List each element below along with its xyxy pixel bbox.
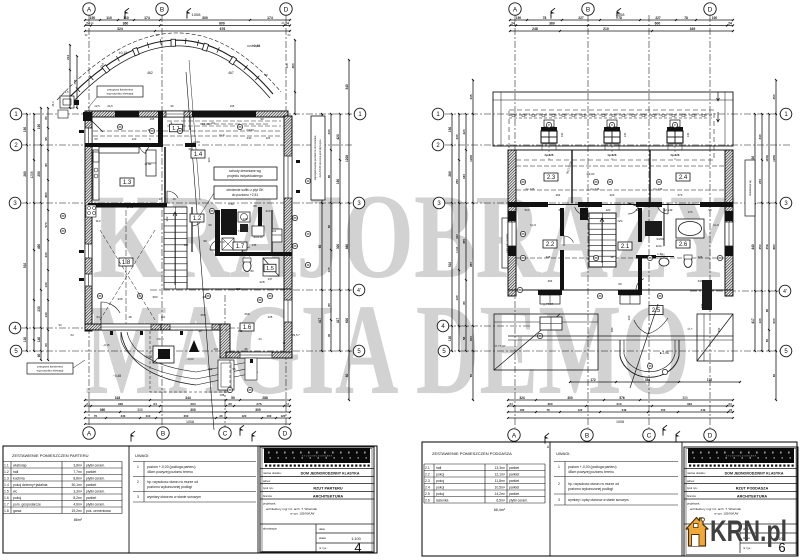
svg-text:1208: 1208: [772, 155, 776, 162]
svg-text:300: 300: [137, 408, 143, 412]
svg-text:354: 354: [645, 378, 651, 382]
svg-text:300: 300: [255, 408, 261, 412]
svg-text:120: 120: [132, 137, 137, 141]
svg-text:96: 96: [232, 367, 236, 371]
svg-text:24: 24: [728, 402, 732, 406]
svg-text:1.2: 1.2: [4, 470, 9, 474]
svg-text:30: 30: [228, 402, 232, 406]
svg-text:188: 188: [220, 393, 225, 397]
svg-text:198: 198: [285, 63, 289, 68]
svg-text:2.1: 2.1: [621, 244, 630, 250]
svg-text:3,8m²: 3,8m²: [73, 464, 83, 468]
svg-text:249: 249: [701, 408, 706, 412]
svg-text:poziomu wykonczonej podlogi: poziomu wykonczonej podlogi: [147, 485, 192, 489]
svg-text:300: 300: [202, 16, 208, 20]
svg-text:417: 417: [318, 318, 322, 324]
svg-text:1.1: 1.1: [4, 464, 9, 468]
svg-text:600: 600: [469, 336, 473, 341]
svg-text:78: 78: [543, 16, 547, 20]
svg-text:130: 130: [44, 282, 48, 287]
svg-text:38: 38: [610, 255, 614, 259]
svg-text:tytul rys.:: tytul rys.:: [263, 486, 274, 490]
svg-text:462: 462: [147, 71, 153, 75]
svg-text:−0,03: −0,03: [186, 357, 194, 361]
svg-text:140: 140: [686, 132, 690, 137]
svg-text:24,5: 24,5: [51, 101, 55, 107]
svg-text:90: 90: [158, 197, 162, 201]
svg-text:174: 174: [267, 16, 273, 20]
svg-text:450: 450: [717, 327, 721, 332]
svg-text:300: 300: [336, 244, 340, 250]
svg-text:pokoj: pokoj: [436, 486, 444, 490]
svg-text:248: 248: [532, 27, 538, 31]
svg-text:80: 80: [44, 163, 48, 167]
svg-text:130: 130: [327, 267, 331, 272]
svg-text:710: 710: [219, 240, 224, 244]
svg-text:280: 280: [23, 171, 27, 177]
svg-text:wg rysunku elewacji: wg rysunku elewacji: [37, 369, 64, 373]
svg-text:115: 115: [266, 136, 271, 140]
svg-text:330: 330: [700, 303, 704, 308]
svg-text:140: 140: [37, 337, 41, 343]
svg-text:140: 140: [560, 132, 564, 137]
svg-text:KRN.pl: KRN.pl: [710, 515, 787, 548]
svg-text:165: 165: [230, 104, 235, 108]
svg-text:95: 95: [44, 137, 48, 141]
svg-text:860: 860: [44, 192, 48, 197]
svg-text:88: 88: [61, 229, 65, 233]
svg-text:78: 78: [546, 408, 550, 412]
svg-text:1.7: 1.7: [236, 244, 245, 250]
svg-text:165: 165: [150, 117, 155, 121]
svg-text:600: 600: [772, 318, 776, 323]
svg-text:150: 150: [516, 16, 522, 20]
svg-text:90: 90: [170, 104, 174, 108]
svg-text:152: 152: [235, 287, 240, 291]
svg-text:80: 80: [765, 309, 769, 313]
svg-text:11,8m²: 11,8m²: [495, 479, 506, 483]
svg-text:230: 230: [44, 252, 48, 257]
svg-text:60: 60: [469, 374, 473, 378]
svg-text:tytul rys.:: tytul rys.:: [687, 486, 698, 490]
svg-text:∅160: ∅160: [156, 337, 164, 341]
svg-text:1.8: 1.8: [4, 509, 9, 513]
svg-text:115: 115: [272, 229, 277, 233]
svg-text:1.6: 1.6: [4, 496, 9, 500]
svg-text:19,2m²: 19,2m²: [71, 509, 82, 513]
svg-text:D: D: [283, 430, 288, 437]
svg-text:↑+3,00: ↑+3,00: [586, 172, 595, 176]
svg-text:80: 80: [250, 269, 254, 273]
svg-text:parkiet: parkiet: [509, 466, 519, 470]
svg-text:88: 88: [518, 288, 522, 292]
svg-text:318: 318: [115, 396, 121, 400]
svg-text:C: C: [223, 430, 228, 437]
svg-text:29,5↗: 29,5↗: [292, 333, 300, 337]
svg-text:40: 40: [327, 334, 331, 338]
svg-text:plytki ceram.: plytki ceram.: [509, 499, 528, 503]
svg-text:24: 24: [285, 402, 289, 406]
svg-text:150: 150: [90, 16, 96, 20]
svg-text:600: 600: [345, 318, 349, 324]
svg-text:∅↗: ∅↗: [688, 327, 694, 331]
svg-text:1208: 1208: [455, 246, 459, 253]
svg-text:88: 88: [657, 180, 661, 184]
svg-text:projektant:: projektant:: [687, 502, 700, 506]
svg-text:hp.126: hp.126: [608, 153, 617, 157]
svg-text:1.4: 1.4: [4, 483, 9, 487]
svg-text:1158: 1158: [765, 155, 769, 162]
svg-text:1: 1: [558, 465, 560, 469]
svg-text:2.3: 2.3: [425, 479, 430, 483]
svg-text:200: 200: [758, 179, 762, 184]
svg-text:78: 78: [684, 16, 688, 20]
svg-text:∅160: ∅160: [246, 128, 254, 132]
svg-text:pom. gospodarcze: pom. gospodarcze: [13, 503, 41, 507]
svg-text:1: 1: [137, 465, 139, 469]
svg-text:1.5: 1.5: [4, 490, 9, 494]
svg-text:projektant:: projektant:: [263, 502, 276, 506]
svg-text:150: 150: [23, 127, 27, 133]
svg-text:420: 420: [627, 315, 631, 320]
svg-text:△↗7,07: △↗7,07: [543, 302, 554, 306]
svg-text:lazienka: lazienka: [436, 499, 449, 503]
svg-text:64: 64: [96, 315, 100, 319]
svg-text:1.2: 1.2: [193, 216, 202, 222]
svg-text:88: 88: [150, 129, 154, 133]
svg-text:349: 349: [690, 27, 696, 31]
svg-text:1.6: 1.6: [243, 325, 252, 331]
svg-text:wymiary i opisy otworow w sta: wymiary i opisy otworow w stanie surowym: [568, 498, 629, 502]
svg-text:570: 570: [44, 222, 48, 227]
svg-text:417: 417: [336, 318, 340, 324]
svg-text:324: 324: [117, 27, 123, 31]
svg-text:130: 130: [455, 295, 459, 300]
svg-text:↑10,00: ↑10,00: [200, 122, 209, 126]
svg-text:88: 88: [210, 209, 214, 213]
svg-text:440: 440: [758, 134, 762, 139]
svg-text:336: 336: [118, 402, 123, 406]
svg-text:172: 172: [707, 378, 713, 382]
svg-text:276: 276: [256, 402, 261, 406]
svg-text:880: 880: [469, 262, 473, 267]
svg-text:88: 88: [258, 298, 262, 302]
svg-text:80: 80: [327, 175, 331, 179]
svg-text:2.2: 2.2: [425, 473, 430, 477]
svg-text:140: 140: [623, 132, 627, 137]
svg-text:architektury mgr inz. arch. T.: architektury mgr inz. arch. T. Wrazniak: [266, 507, 317, 511]
svg-text:1208: 1208: [30, 171, 34, 178]
svg-text:wymiary otworow w stanie suro: wymiary otworow w stanie surowym: [147, 495, 201, 499]
svg-text:440: 440: [751, 244, 755, 250]
svg-text:490: 490: [37, 244, 41, 250]
svg-text:nazwa obiektu:: nazwa obiektu:: [687, 471, 706, 475]
svg-text:04: 04: [211, 121, 215, 125]
svg-text:7,7m²: 7,7m²: [73, 470, 83, 474]
svg-text:88: 88: [718, 256, 722, 260]
svg-text:88: 88: [206, 294, 210, 298]
svg-text:130: 130: [23, 337, 27, 343]
svg-text:poziom +-0,00 (podloga parteru: poziom +-0,00 (podloga parteru): [147, 465, 196, 469]
svg-text:garaz: garaz: [13, 509, 22, 513]
svg-text:hp.126: hp.126: [671, 153, 680, 157]
svg-text:180: 180: [520, 408, 525, 412]
svg-text:90: 90: [203, 239, 207, 243]
svg-text:576: 576: [619, 396, 625, 400]
svg-text:140: 140: [44, 312, 48, 317]
svg-text:2.4: 2.4: [425, 486, 430, 490]
svg-text:34: 34: [153, 402, 157, 406]
svg-text:ARCHITEKTURA: ARCHITEKTURA: [313, 495, 343, 499]
svg-text:88: 88: [98, 294, 102, 298]
svg-text:467: 467: [228, 71, 234, 75]
svg-text:1008: 1008: [616, 420, 624, 424]
svg-text:230: 230: [37, 306, 41, 312]
svg-text:600: 600: [219, 21, 225, 25]
svg-text:64: 64: [70, 333, 74, 337]
svg-text:DOM JEDNORODZINNY KLASYKA: DOM JEDNORODZINNY KLASYKA: [301, 472, 360, 476]
svg-text:24: 24: [511, 21, 515, 25]
svg-text:280: 280: [448, 171, 452, 177]
svg-text:288: 288: [262, 396, 268, 400]
svg-text:710: 710: [238, 229, 243, 233]
svg-text:70: 70: [94, 414, 98, 418]
svg-text:96: 96: [244, 347, 248, 351]
svg-text:360: 360: [123, 21, 129, 25]
svg-text:14,2m²: 14,2m²: [494, 492, 505, 496]
svg-text:344: 344: [185, 396, 191, 400]
svg-text:48cm powyzej poziomu terenu: 48cm powyzej poziomu terenu: [568, 470, 614, 474]
svg-text:24: 24: [86, 402, 90, 406]
svg-text:1008: 1008: [192, 12, 202, 17]
svg-text:600: 600: [655, 21, 661, 25]
svg-text:264: 264: [190, 402, 195, 406]
svg-text:B: B: [161, 430, 165, 437]
svg-text:poziomu wykonczonej podlogi: poziomu wykonczonej podlogi: [568, 487, 613, 491]
svg-text:A: A: [87, 430, 92, 437]
svg-text:2.5: 2.5: [425, 492, 430, 496]
svg-text:60: 60: [44, 116, 48, 120]
svg-text:plytki ceram.: plytki ceram.: [86, 490, 105, 494]
svg-text:290: 290: [37, 171, 41, 177]
svg-text:3,3m²: 3,3m²: [73, 490, 83, 494]
svg-text:24: 24: [729, 408, 733, 412]
svg-text:parkiet: parkiet: [86, 496, 96, 500]
svg-text:510: 510: [23, 263, 27, 269]
svg-text:2.1: 2.1: [425, 466, 430, 470]
svg-text:pokoj: pokoj: [436, 479, 444, 483]
svg-text:24: 24: [728, 21, 732, 25]
svg-text:360: 360: [547, 402, 552, 406]
svg-text:24,5: 24,5: [63, 90, 69, 94]
svg-text:1.8: 1.8: [122, 260, 131, 266]
svg-text:3: 3: [558, 498, 560, 502]
svg-text:A: A: [513, 6, 518, 13]
svg-text:∅↗7,07: ∅↗7,07: [495, 344, 506, 348]
svg-text:adres:: adres:: [263, 479, 271, 483]
svg-text:parkiet: parkiet: [509, 479, 519, 483]
svg-text:adres:: adres:: [687, 479, 695, 483]
svg-text:210: 210: [265, 209, 270, 213]
svg-text:137: 137: [268, 277, 273, 281]
svg-text:160: 160: [462, 174, 466, 179]
svg-text:310: 310: [455, 234, 459, 239]
svg-text:1.40: 1.40: [657, 252, 663, 256]
svg-text:rura fi 160 ulozona pod plyta: rura fi 160 ulozona pod plyta pos.: [318, 139, 322, 178]
svg-text:88: 88: [228, 388, 232, 392]
svg-text:140: 140: [208, 367, 213, 371]
svg-text:tp.90: tp.90: [145, 162, 152, 166]
svg-text:8,2m²: 8,2m²: [73, 496, 83, 500]
svg-text:hp.9: hp.9: [530, 223, 536, 227]
svg-text:RZUT PODDASZA: RZUT PODDASZA: [736, 487, 769, 491]
svg-text:88: 88: [608, 180, 612, 184]
svg-text:110: 110: [161, 315, 166, 319]
svg-text:450: 450: [772, 94, 776, 99]
svg-text:D: D: [708, 432, 713, 439]
svg-text:573: 573: [678, 193, 683, 197]
svg-text:110x...: 110x...: [656, 244, 665, 248]
svg-text:60: 60: [44, 343, 48, 347]
svg-text:−0,03: −0,03: [144, 355, 152, 359]
svg-text:227: 227: [578, 16, 584, 20]
svg-text:676: 676: [220, 27, 226, 31]
svg-text:110: 110: [146, 414, 151, 418]
svg-text:264: 264: [548, 279, 553, 283]
svg-text:projektu indywidualnego: projektu indywidualnego: [227, 174, 263, 178]
svg-text:38: 38: [648, 364, 652, 368]
svg-text:1.4: 1.4: [194, 152, 203, 158]
svg-text:122: 122: [578, 408, 583, 412]
svg-text:358: 358: [765, 244, 769, 249]
svg-text:P: P: [548, 123, 550, 127]
svg-text:D: D: [284, 6, 289, 13]
svg-text:RZUT PARTERU: RZUT PARTERU: [313, 487, 343, 491]
svg-text:52 149: 52 149: [664, 208, 673, 212]
svg-text:2.2: 2.2: [546, 242, 555, 248]
svg-text:88: 88: [238, 125, 242, 129]
svg-text:12,1m²: 12,1m²: [494, 473, 505, 477]
svg-text:104: 104: [214, 347, 219, 351]
svg-text:UWAGI:: UWAGI:: [556, 451, 571, 456]
svg-text:430: 430: [327, 129, 331, 134]
svg-text:13,3m²: 13,3m²: [494, 466, 505, 470]
svg-text:hall: hall: [436, 466, 442, 470]
svg-text:12: 12: [635, 208, 639, 212]
svg-text:150: 150: [661, 408, 666, 412]
svg-text:240: 240: [121, 414, 126, 418]
svg-text:60: 60: [327, 225, 331, 229]
svg-text:86m²: 86m²: [74, 518, 83, 522]
svg-text:3: 3: [137, 495, 139, 499]
svg-text:hp.9: hp.9: [713, 223, 719, 227]
svg-text:pokoj: pokoj: [436, 492, 444, 496]
svg-text:120: 120: [281, 414, 286, 418]
svg-text:230: 230: [247, 136, 252, 140]
svg-text:90: 90: [618, 282, 622, 286]
svg-text:parkiet: parkiet: [86, 483, 96, 487]
svg-text:300: 300: [567, 396, 573, 400]
svg-text:88: 88: [293, 244, 297, 248]
svg-text:C: C: [647, 432, 652, 439]
svg-text:88: 88: [178, 129, 182, 133]
svg-text:88: 88: [248, 388, 252, 392]
svg-text:249: 249: [622, 408, 627, 412]
svg-text:90: 90: [260, 117, 264, 121]
svg-text:tp.90: tp.90: [127, 205, 134, 209]
svg-text:393: 393: [152, 295, 157, 299]
svg-text:258: 258: [200, 313, 205, 317]
svg-text:340: 340: [345, 84, 349, 90]
svg-text:88: 88: [268, 294, 272, 298]
svg-text:360: 360: [100, 408, 106, 412]
svg-text:60: 60: [318, 245, 322, 249]
svg-text:B: B: [585, 432, 589, 439]
svg-text:architektury mgr inz. arch. T.: architektury mgr inz. arch. T. Wrazniak: [690, 507, 741, 511]
svg-text:336: 336: [117, 297, 122, 301]
svg-text:88: 88: [521, 232, 525, 236]
svg-text:100: 100: [712, 16, 718, 20]
svg-text:1008: 1008: [186, 420, 194, 424]
svg-text:parkiet: parkiet: [509, 473, 519, 477]
svg-text:342: 342: [165, 216, 169, 221]
svg-text:1.5: 1.5: [266, 266, 274, 272]
svg-text:24: 24: [258, 337, 262, 341]
svg-text:90: 90: [208, 223, 212, 227]
svg-text:360: 360: [291, 63, 295, 68]
svg-text:DOM JEDNORODZINNY KLASYKA: DOM JEDNORODZINNY KLASYKA: [725, 472, 784, 476]
svg-text:akceptacja:: akceptacja:: [263, 527, 277, 531]
svg-text:10,5m²: 10,5m²: [494, 486, 505, 490]
svg-text:266: 266: [244, 312, 249, 316]
svg-text:4: 4: [354, 540, 361, 555]
svg-text:2: 2: [137, 480, 139, 484]
svg-text:214: 214: [66, 55, 70, 60]
svg-text:4,6m²: 4,6m²: [73, 503, 83, 507]
svg-text:455: 455: [462, 239, 466, 244]
svg-text:4': 4': [783, 289, 787, 295]
svg-text:148: 148: [242, 217, 247, 221]
svg-text:nazwa obiektu:: nazwa obiektu:: [263, 471, 282, 475]
svg-text:80: 80: [327, 303, 331, 307]
svg-text:350: 350: [758, 244, 762, 249]
svg-text:B: B: [586, 6, 590, 13]
svg-text:223: 223: [610, 193, 615, 197]
svg-text:180: 180: [610, 327, 614, 332]
svg-text:68,4m²: 68,4m²: [494, 508, 506, 512]
svg-text:schody drewniane wg: schody drewniane wg: [229, 169, 261, 173]
svg-text:228: 228: [259, 280, 264, 284]
svg-text:250: 250: [455, 179, 459, 184]
svg-text:±0,15: ±0,15: [119, 51, 128, 55]
svg-text:pokoj dzienny+jadalnia: pokoj dzienny+jadalnia: [13, 483, 48, 487]
svg-text:60: 60: [345, 374, 349, 378]
svg-text:340: 340: [698, 279, 703, 283]
svg-text:wc: wc: [13, 490, 17, 494]
svg-text:228: 228: [268, 315, 273, 319]
svg-text:hp.126: hp.126: [654, 187, 663, 191]
svg-text:172: 172: [590, 378, 596, 382]
svg-text:hp.=wysokosc otworu w murze od: hp.=wysokosc otworu w murze od: [568, 482, 619, 486]
svg-text:A: A: [87, 6, 92, 13]
svg-text:88: 88: [293, 216, 297, 220]
svg-text:152: 152: [184, 243, 189, 247]
svg-text:135: 135: [252, 243, 257, 247]
svg-text:tp.0: tp.0: [219, 133, 224, 137]
svg-text:parkiet: parkiet: [509, 486, 519, 490]
svg-text:plytki ceram.: plytki ceram.: [86, 464, 105, 468]
svg-text:1208: 1208: [469, 155, 473, 162]
